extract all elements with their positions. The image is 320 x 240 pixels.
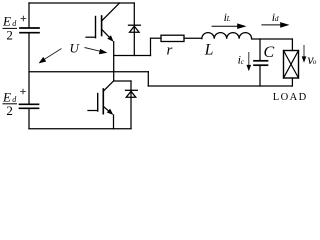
current arrow iL	[212, 25, 239, 27]
source Ed/2 bottom (capacitor plates)	[20, 104, 39, 108]
plus sign top source	[21, 16, 25, 20]
capacitor C branch upper	[259, 39, 261, 60]
transistor top IGBT emitter arrowhead	[107, 35, 113, 42]
wire load return	[148, 85, 292, 87]
plus sign bottom source	[21, 89, 25, 93]
capacitor C plates	[254, 61, 268, 65]
wire left rail middle segment	[28, 33, 30, 104]
transistor top IGBT body bar	[101, 16, 103, 36]
svg-text:c: c	[241, 58, 245, 66]
svg-text:2: 2	[6, 103, 12, 118]
svg-text:U: U	[70, 40, 81, 55]
svg-text:L: L	[226, 15, 231, 23]
wire down into load top	[291, 39, 293, 51]
svg-text:C: C	[264, 44, 275, 61]
diode top (freewheel) column	[133, 3, 135, 56]
wire mid rail from capacitor midpoint	[29, 71, 148, 73]
svg-text:2: 2	[6, 27, 12, 42]
transistor bottom IGBT body bar	[102, 89, 104, 114]
transistor bottom IGBT collector diagonal	[103, 81, 113, 91]
transistor top IGBT emitter diagonal	[102, 29, 111, 38]
svg-text:r: r	[167, 42, 173, 58]
wire into resistor	[151, 37, 162, 39]
source Ed/2 top (capacitor plates)	[20, 28, 39, 33]
load box X cross	[284, 51, 299, 79]
diode top cathode bar	[129, 24, 141, 26]
svg-text:LOAD: LOAD	[273, 92, 308, 103]
wire left rail upper segment	[28, 3, 30, 27]
svg-text:o: o	[313, 58, 317, 66]
wire left rail lower segment	[28, 108, 30, 128]
transistor bottom IGBT gate lead	[88, 110, 98, 112]
inductor L coil	[202, 33, 252, 39]
svg-text:E: E	[2, 14, 11, 29]
transistor top IGBT gate lead	[86, 36, 96, 38]
wire inductor to load corner	[252, 38, 293, 40]
diode bottom triangle	[126, 91, 136, 97]
wire top rail	[29, 2, 134, 4]
wire resistor to inductor	[184, 37, 202, 39]
diode bottom cathode bar	[126, 89, 138, 91]
wire leg bottom	[113, 115, 115, 129]
wire load bottom riser	[291, 78, 293, 86]
wire lower leg to lower diode	[114, 80, 131, 82]
transistor top IGBT gate bar	[95, 17, 97, 38]
wire output to filter	[114, 55, 151, 57]
svg-text:d: d	[12, 95, 17, 104]
svg-text:L: L	[204, 42, 214, 59]
annotation arrow U to top IGBT	[43, 49, 62, 61]
resistor r box	[161, 35, 184, 41]
wire mid rail drop to load return	[147, 72, 149, 86]
wire leg vertical (output node)	[113, 42, 115, 81]
transistor bottom IGBT gate bar	[97, 94, 99, 112]
wire bottom rail	[29, 128, 131, 130]
capacitor C branch lower	[259, 65, 261, 86]
load box	[284, 51, 299, 79]
current arrow id	[261, 24, 281, 26]
current arrow ic	[248, 52, 250, 66]
diode bottom column	[130, 81, 132, 129]
diode top triangle	[130, 26, 140, 32]
annotation arrow U to bottom area	[85, 48, 101, 52]
transistor bottom IGBT emitter diagonal	[103, 106, 110, 112]
svg-text:d: d	[275, 14, 279, 23]
svg-text:d: d	[12, 19, 17, 28]
wire output step up	[150, 38, 152, 55]
voltage arrow vo	[303, 45, 305, 57]
transistor top IGBT collector diagonal	[102, 3, 120, 21]
transistor bottom IGBT emitter arrowhead	[107, 109, 114, 115]
